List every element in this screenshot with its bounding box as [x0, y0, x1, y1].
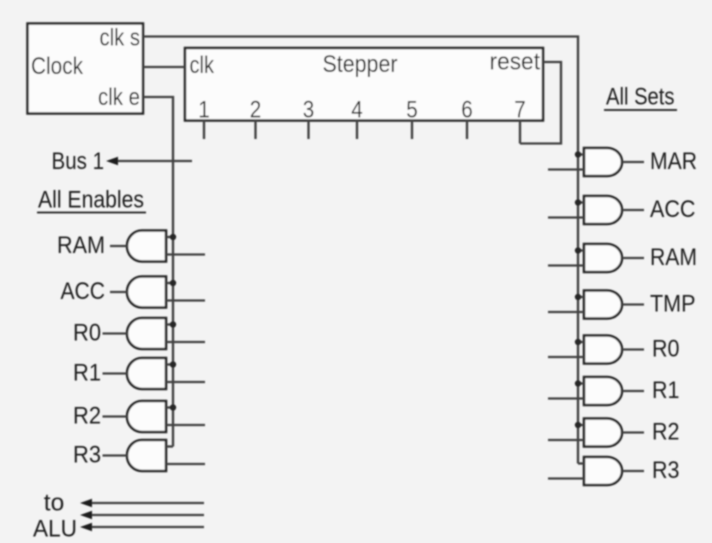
svg-text:All Enables: All Enables — [38, 187, 144, 214]
svg-text:Bus 1: Bus 1 — [52, 148, 105, 175]
svg-text:1: 1 — [198, 97, 210, 124]
and-gate set R0 — [584, 336, 622, 364]
svg-text:ALU: ALU — [33, 516, 77, 543]
svg-text:R3: R3 — [73, 442, 101, 469]
svg-text:5: 5 — [406, 97, 418, 124]
wire R2 enable lead — [103, 415, 129, 417]
junction left bus RAM — [170, 234, 176, 240]
label All Sets — [604, 84, 677, 111]
wire to ALU 2 — [80, 511, 204, 519]
and-gate set ACC — [584, 196, 622, 224]
wire TMP set signal stub — [548, 311, 584, 313]
wire MAR set signal stub — [548, 168, 584, 170]
and-gate set TMP — [584, 291, 622, 319]
junction right bus RAM — [575, 247, 581, 253]
clock box U1 — [28, 24, 144, 114]
stepper box U2 — [185, 48, 543, 121]
wire RAM enable lead — [110, 245, 128, 247]
stepper pin 6 — [461, 97, 473, 140]
wire R0 set signal stub — [548, 356, 584, 358]
svg-text:2: 2 — [250, 97, 262, 124]
stepper pin 3 — [303, 97, 315, 140]
stepper pin 2 — [250, 97, 262, 140]
wire RAM enable clk input — [166, 236, 173, 238]
svg-text:R2: R2 — [73, 403, 101, 430]
wire Bus 1 arrow — [106, 157, 192, 165]
wire clk s (clock to right set bus) — [143, 37, 578, 464]
wire to ALU 3 — [80, 523, 204, 531]
wire ACC set output — [622, 209, 644, 211]
svg-text:4: 4 — [351, 97, 363, 124]
svg-text:R1: R1 — [73, 360, 101, 387]
wire R2 set output — [622, 431, 644, 433]
junction left bus ACC — [170, 280, 176, 286]
and-gate enable R1 — [127, 358, 166, 389]
wire RAM enable signal stub — [166, 253, 205, 255]
wire reset loop from pin 7 to reset input — [520, 62, 561, 144]
svg-text:RAM: RAM — [57, 232, 105, 259]
and-gate enable R2 — [127, 401, 166, 432]
svg-text:ACC: ACC — [61, 278, 106, 305]
svg-text:R2: R2 — [652, 419, 680, 446]
svg-text:reset: reset — [490, 49, 541, 76]
wire clk e (clock to left enable bus) — [143, 97, 173, 447]
wire TMP set clk input — [578, 296, 584, 298]
wire R2 enable signal stub — [166, 424, 205, 426]
stepper pin 5 — [406, 97, 418, 140]
wire R0 enable lead — [103, 332, 129, 334]
junction left bus R1 — [170, 361, 176, 367]
wire R3 set output — [622, 470, 644, 472]
wire R1 enable clk input — [166, 363, 173, 365]
wire R1 set signal stub — [548, 397, 584, 399]
wire R3 set signal stub — [548, 477, 584, 479]
and-gate enable ACC — [127, 277, 166, 308]
wire R1 enable lead — [103, 372, 129, 374]
junction right bus R2 — [575, 422, 581, 428]
svg-text:Clock: Clock — [31, 53, 84, 80]
wire R1 enable signal stub — [166, 381, 205, 383]
wire R1 set output — [622, 390, 644, 392]
wire R2 set clk input — [578, 424, 584, 426]
svg-text:MAR: MAR — [650, 148, 697, 175]
junction right bus TMP — [575, 294, 581, 300]
wire MAR set clk input — [578, 153, 584, 155]
wire TMP set output — [622, 303, 644, 305]
wire R3 set clk input — [578, 462, 584, 464]
svg-text:R0: R0 — [73, 320, 101, 347]
svg-text:R0: R0 — [652, 336, 680, 363]
wire RAM set signal stub — [548, 264, 584, 266]
wire ACC enable signal stub — [166, 299, 205, 301]
wire clk (clock to stepper) — [143, 66, 185, 68]
wire ACC set signal stub — [548, 216, 584, 218]
svg-text:6: 6 — [461, 97, 473, 124]
wire RAM set clk input — [578, 249, 584, 251]
svg-text:clk s: clk s — [100, 25, 141, 52]
and-gate set R3 — [584, 457, 622, 485]
and-gate set R2 — [584, 419, 622, 447]
wire RAM set output — [622, 257, 644, 259]
junction right bus R1 — [575, 380, 581, 386]
junction right bus ACC — [575, 199, 581, 205]
wire ACC enable clk input — [166, 282, 173, 284]
stepper pin 1 — [198, 97, 210, 140]
svg-text:ACC: ACC — [650, 196, 696, 223]
svg-text:3: 3 — [303, 97, 315, 124]
and-gate set MAR — [584, 148, 622, 176]
svg-text:to: to — [44, 490, 64, 517]
and-gate enable R0 — [127, 318, 166, 349]
wire R3 enable lead — [103, 454, 129, 456]
and-gate set R1 — [584, 377, 622, 405]
svg-text:clk e: clk e — [98, 84, 140, 111]
wire R0 enable clk input — [166, 323, 173, 325]
junction right bus R0 — [575, 339, 581, 345]
wire MAR set output — [622, 161, 644, 163]
and-gate enable R3 — [127, 440, 166, 471]
svg-text:Stepper: Stepper — [323, 51, 398, 78]
label All Enables — [37, 187, 146, 214]
and-gate set RAM — [584, 244, 622, 272]
svg-text:RAM: RAM — [650, 244, 697, 271]
stepper pin 7 — [514, 97, 526, 144]
wire R0 set clk input — [578, 341, 584, 343]
svg-text:TMP: TMP — [650, 291, 696, 318]
svg-text:R1: R1 — [652, 377, 680, 404]
wire R3 enable signal stub — [166, 463, 205, 465]
label to ALU — [33, 490, 77, 543]
junction left bus R0 — [170, 321, 176, 327]
wire R0 set output — [622, 348, 644, 350]
wire ACC enable lead — [110, 291, 128, 293]
wire ACC set clk input — [578, 201, 584, 203]
wire R1 set clk input — [578, 382, 584, 384]
svg-text:All Sets: All Sets — [606, 84, 675, 111]
junction left bus R2 — [170, 404, 176, 410]
junction right bus MAR — [575, 151, 581, 157]
wire R2 set signal stub — [548, 439, 584, 441]
svg-text:7: 7 — [514, 97, 526, 124]
wire R0 enable signal stub — [166, 341, 205, 343]
and-gate enable RAM — [127, 231, 166, 262]
wire R3 enable clk input — [166, 445, 173, 447]
wire R2 enable clk input — [166, 406, 173, 408]
svg-text:R3: R3 — [652, 457, 680, 484]
stepper pin 4 — [351, 97, 363, 140]
svg-text:clk: clk — [190, 52, 215, 79]
wire to ALU 1 — [80, 499, 204, 507]
